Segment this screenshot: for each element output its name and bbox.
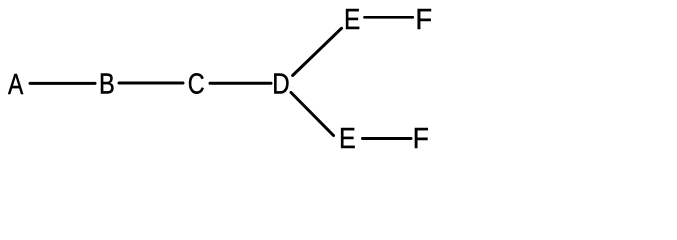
svg-text:F: F [413,122,429,154]
svg-text:E: E [339,121,356,154]
svg-text:C: C [188,67,205,100]
svg-text:D: D [272,67,289,100]
svg-text:E: E [344,3,360,35]
svg-text:F: F [415,2,432,35]
svg-text:B: B [99,67,115,100]
svg-text:A: A [8,67,24,100]
